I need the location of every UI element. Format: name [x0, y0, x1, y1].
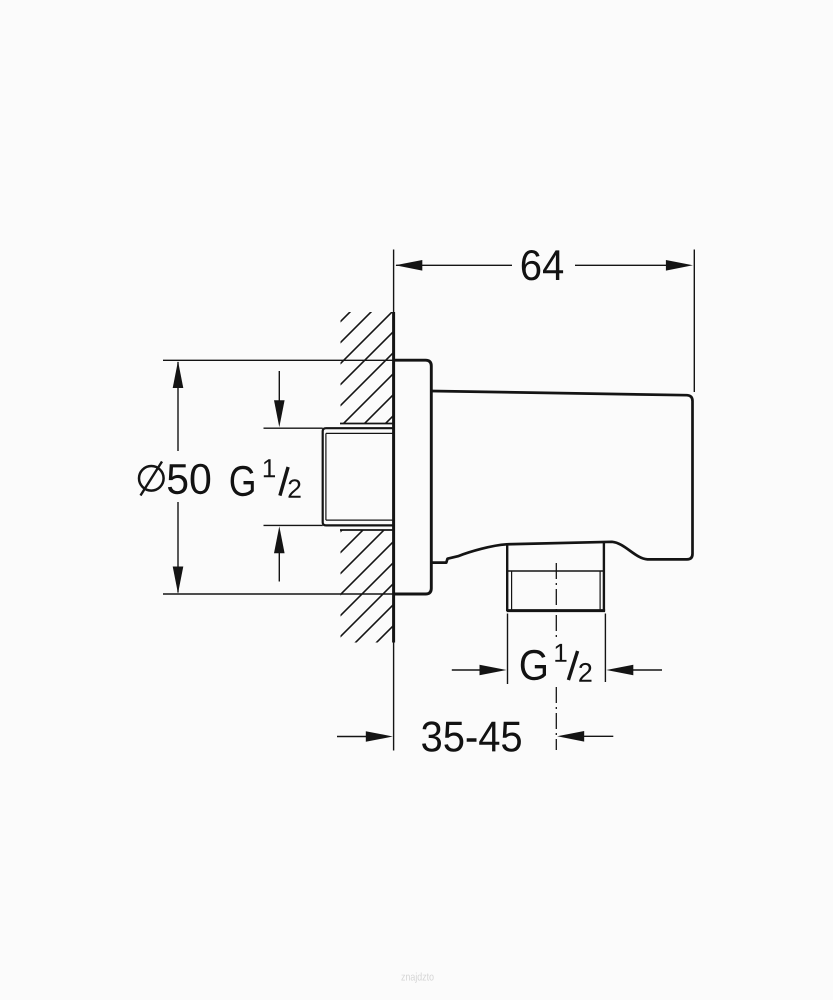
- thread hole crest line top: [340, 423, 394, 425]
- outlet thread root line left: [511, 571, 513, 610]
- outlet boss right edge: [603, 542, 605, 611]
- dimension 35-45 arrow left: [337, 736, 368, 738]
- diameter 50 arrowhead down: [173, 567, 184, 594]
- thread dimension arrow bottom: [278, 551, 280, 582]
- diameter 50 arrowhead up: [173, 361, 184, 388]
- wall line thin bottom (35-45 extension): [393, 643, 395, 751]
- dimension 35-45 text: [422, 721, 521, 751]
- escutcheon plate: [394, 360, 432, 594]
- main body outline: [431, 391, 692, 563]
- G 1/2 bottom arrow left: [452, 669, 482, 671]
- G 1/2 bottom label: G: [521, 650, 546, 680]
- thread box inner root line left: [325, 433, 327, 520]
- dimension 64 arrowhead left: [395, 260, 422, 271]
- G 1/2 left label: fraction slash: [280, 467, 288, 496]
- thread box inner root line bottom: [326, 519, 394, 521]
- dimension 64 arrowhead right: [666, 260, 693, 271]
- diameter 50 text: [168, 464, 210, 494]
- G 1/2 bottom arrow right: [633, 669, 662, 671]
- dimension 64 extension line right: [693, 250, 695, 393]
- thread box extension line bottom: [264, 524, 323, 526]
- diameter 50 dimension line lower: [177, 502, 179, 593]
- watermark: [401, 973, 433, 983]
- G 1/2 left label: subscript 2: [289, 479, 301, 498]
- outlet boss left edge: [506, 544, 508, 611]
- G 1/2 bottom label: fraction slash: [568, 651, 577, 680]
- G 1/2 bottom label: superscript 1: [555, 644, 566, 662]
- diameter 50 dimension line upper: [177, 362, 179, 451]
- diameter symbol circle: [139, 466, 164, 491]
- outlet thread start line: [507, 570, 604, 572]
- outlet bottom thick edge: [507, 609, 605, 612]
- thread dimension arrow top: [278, 371, 280, 402]
- outlet centerline upper: [555, 563, 557, 641]
- dimension 35-45 arrow right: [584, 735, 613, 737]
- wall hatching: [0, 200, 833, 700]
- G 1/2 bottom extension line right: [604, 614, 606, 683]
- thread box inner root line top: [326, 432, 394, 434]
- diameter symbol slash: [141, 462, 163, 496]
- G 1/2 left label: superscript 1: [264, 459, 275, 477]
- dimension 64 line left part: [396, 264, 512, 266]
- wall line thick: [392, 312, 395, 643]
- G 1/2 left label: G: [231, 466, 254, 496]
- dimension 64 text: [522, 250, 563, 280]
- dimension 64 line right part: [575, 264, 689, 266]
- thread hole crest line bottom: [340, 529, 394, 531]
- thread box outer outline: [323, 428, 394, 525]
- outlet thread root line right: [599, 571, 601, 610]
- diameter 50 extension line top: [163, 359, 400, 361]
- thread box extension line top: [264, 427, 323, 429]
- outlet centerline lower: [555, 687, 557, 750]
- G 1/2 bottom extension line left: [507, 614, 509, 685]
- dimension 64 extension line left (wall line thin top): [393, 250, 395, 313]
- G 1/2 bottom label: subscript 2: [579, 663, 591, 682]
- diameter 50 extension line bottom: [163, 593, 400, 595]
